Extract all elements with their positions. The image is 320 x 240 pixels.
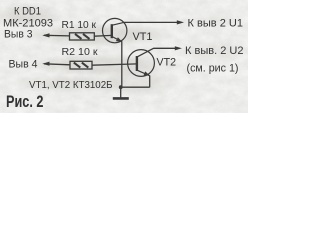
svg-text:R1 10 к: R1 10 к (62, 19, 97, 31)
wire: common emitter horizontal to ground node (121, 86, 150, 88)
arrow: right arrowhead to К выв 2 U2 (175, 46, 182, 50)
wire: Выв 4 input line to R2 (44, 64, 70, 65)
wire: VT1 emitter vertical down (121, 41, 123, 87)
arrow: left arrowhead at Выв 3 (42, 33, 49, 37)
resistor R1 (70, 33, 95, 40)
wire: VT1 collector top rail to output arrow (124, 21, 178, 23)
resistor R2 (70, 61, 92, 69)
wire: VT2 emitter vertical down (149, 75, 151, 87)
svg-text:VT1: VT1 (133, 31, 153, 43)
wire: VT2 collector rail to output arrow (153, 47, 175, 49)
svg-text:VT2: VT2 (157, 56, 177, 68)
svg-text:МК-21093: МК-21093 (3, 17, 53, 29)
svg-text:Выв 3: Выв 3 (4, 29, 33, 41)
svg-text:VT1, VT2 КТ3102Б: VT1, VT2 КТ3102Б (29, 80, 113, 91)
transistor VT1 (103, 18, 127, 42)
svg-text:К выв. 2 U2: К выв. 2 U2 (185, 45, 244, 57)
svg-text:К DD1: К DD1 (14, 6, 41, 18)
svg-text:(см. рис 1): (см. рис 1) (187, 62, 239, 74)
svg-text:Выв 4: Выв 4 (9, 59, 38, 71)
svg-text:R2 10 к: R2 10 к (62, 46, 98, 58)
wire: Выв 3 input line to R1 (44, 34, 70, 37)
svg-text:К выв 2 U1: К выв 2 U1 (188, 18, 244, 30)
ground (113, 97, 129, 100)
svg-text:Рис. 2: Рис. 2 (6, 93, 44, 111)
wire: R2 to VT2 base (92, 64, 137, 65)
arrow: right arrowhead to К выв 2 U1 (177, 20, 184, 24)
wire: ground stem (120, 87, 122, 97)
arrow: left arrowhead at Выв 4 (42, 62, 49, 66)
wire: R1 to VT1 base (94, 34, 112, 37)
transistor VT2 (128, 48, 155, 76)
node: common emitter junction (119, 85, 123, 89)
